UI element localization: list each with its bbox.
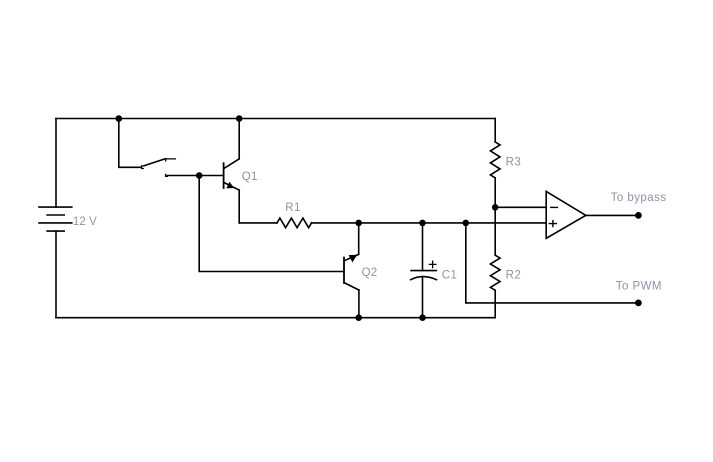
resistor R2: [490, 255, 500, 290]
wire battery negative to bottom rail: [55, 231, 57, 318]
switch S1 blade: [144, 159, 165, 166]
svg-text:To bypass: To bypass: [611, 192, 667, 204]
junction node Q2 collector / bottom rail: [355, 314, 362, 321]
wire emitter to R1: [239, 222, 277, 224]
wire left rail to battery: [55, 119, 57, 208]
junction node Q1 collector / top rail: [236, 115, 243, 122]
wire R3 to divider node: [494, 178, 496, 207]
junction node C1 top / middle rail: [419, 220, 426, 227]
wire node drop to Q2 base: [199, 176, 344, 272]
wire bottom rail: [56, 317, 495, 319]
wire middle rail to op-amp plus input: [312, 222, 547, 224]
wire divider node into R2: [494, 207, 496, 255]
wire PWM branch: [466, 223, 639, 303]
wire top rail: [56, 118, 495, 120]
svg-text:12 V: 12 V: [73, 216, 97, 228]
battery 12 V: [39, 207, 72, 231]
junction node switch drop / top rail: [116, 115, 123, 122]
wire Q2 emitter to middle rail: [358, 223, 360, 254]
junction node PWM branch / middle rail: [463, 220, 470, 227]
capacitor C1: [411, 223, 437, 318]
wire Q1 collector to top rail: [238, 119, 240, 159]
svg-text:Q2: Q2: [362, 267, 378, 279]
wire lower throw to Q1 base: [167, 175, 223, 177]
svg-text:To PWM: To PWM: [616, 280, 662, 292]
junction node Q2 emitter / middle rail: [355, 220, 362, 227]
junction node C1 bottom / bottom rail: [419, 314, 426, 321]
op-amp U1: [546, 191, 586, 238]
wire Q2 collector to bottom rail: [358, 290, 360, 318]
resistor R1: [277, 218, 312, 228]
terminal To bypass: [635, 212, 642, 219]
svg-text:R3: R3: [506, 156, 522, 168]
svg-text:Q1: Q1: [242, 171, 258, 183]
junction node R3/R2 divider: [492, 204, 499, 211]
terminal To PWM: [635, 300, 642, 307]
wire R2 to bottom rail: [494, 290, 496, 317]
resistor R3: [490, 142, 500, 178]
wire divider node to op-amp minus input: [495, 206, 546, 208]
svg-text:R1: R1: [285, 202, 301, 214]
wire top rail corner into R3: [494, 119, 496, 142]
switch S1 lower throw contact: [166, 174, 168, 176]
wire switch drop from top rail: [119, 119, 141, 168]
switch S1 upper throw contact: [166, 159, 176, 161]
wire Q1 emitter down: [238, 190, 240, 223]
junction node Q1 base: [196, 172, 203, 179]
transistor Q1: [224, 159, 240, 190]
transistor Q2: [344, 254, 359, 290]
wire op-amp output: [586, 214, 639, 216]
svg-text:C1: C1: [442, 270, 458, 282]
svg-text:R2: R2: [506, 269, 522, 281]
switch S1 common contact: [142, 166, 144, 169]
